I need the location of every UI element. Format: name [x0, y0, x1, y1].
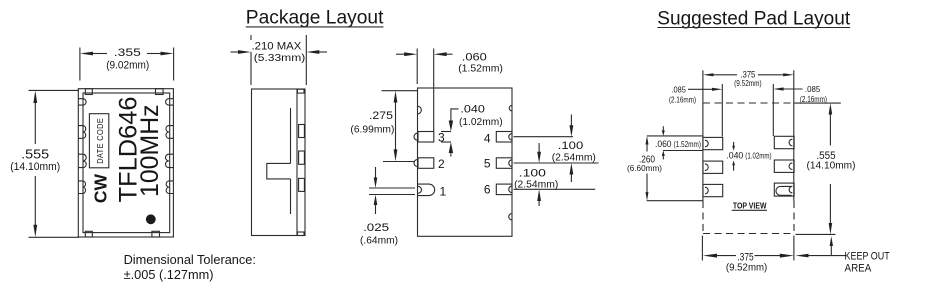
dimension .100 (2.54mm) pins 5-6	[514, 143, 596, 206]
label TOP VIEW	[732, 201, 767, 210]
dimension .100 (2.54mm) pins 4-5	[514, 115, 599, 183]
dimension .085 (2.16mm) right of pad layout	[773, 84, 827, 104]
front view left edge notch (single)	[78, 99, 86, 105]
dimension .555 (14.10mm) right of pad layout	[807, 103, 856, 234]
pin 3 pad	[414, 132, 434, 143]
dimension .260 (6.60mm) pad field height	[627, 136, 662, 201]
dimension .040 (1.02mm) pad gap	[726, 142, 771, 171]
svg-text:Suggested Pad Layout: Suggested Pad Layout	[657, 8, 851, 29]
svg-text:Dimensional Tolerance:: Dimensional Tolerance:	[124, 252, 256, 267]
svg-text:.275: .275	[369, 110, 393, 122]
svg-text:(14.10mm): (14.10mm)	[807, 160, 856, 172]
svg-text:KEEP OUT: KEEP OUT	[845, 251, 890, 263]
dimension .210 MAX (5.33mm) top of side view	[231, 35, 328, 85]
pad layout extension line right inner	[772, 84, 774, 136]
front view right edge castellation cluster 1	[166, 126, 173, 139]
svg-text:±.005 (.127mm): ±.005 (.127mm)	[124, 267, 214, 282]
pad layout keep-out dashed boundary	[703, 103, 794, 234]
svg-text:(6.60mm): (6.60mm)	[627, 163, 662, 173]
pin 1 pad (rounded)	[418, 184, 435, 196]
pin 5 pad	[496, 158, 512, 169]
svg-text:(1.52mm): (1.52mm)	[458, 62, 503, 74]
pad A1 (left top)	[703, 137, 723, 149]
pad layout extension line right outer	[793, 70, 795, 201]
svg-text:(2.16mm): (2.16mm)	[800, 95, 827, 104]
svg-text:.085: .085	[805, 84, 821, 94]
svg-text:.085: .085	[672, 84, 687, 94]
bottom view right edge notch upper	[509, 105, 512, 111]
svg-text:.025: .025	[363, 222, 389, 234]
dimension .085 (2.16mm) left of pad layout	[669, 84, 722, 104]
pad layout horizontal extension lines right	[794, 103, 841, 234]
pad A3 (left bottom)	[703, 184, 723, 196]
svg-text:(2.54mm): (2.54mm)	[514, 179, 558, 191]
dimension .060 (1.52mm) top of bottom view	[396, 49, 503, 132]
date code box	[89, 114, 108, 168]
dimension .555 (14.10mm) left of front view	[10, 90, 79, 237]
pad B1 (right top)	[774, 136, 794, 148]
front view corner castellation top-right	[156, 89, 164, 95]
dimension .355 (9.02mm) top of front view	[80, 47, 174, 80]
pad layout horizontal extension lines left	[647, 136, 703, 201]
dimension .375 (9.52mm) top of pad layout	[703, 70, 794, 88]
pad A2 (left middle)	[703, 161, 723, 173]
pin 4 pad	[496, 132, 512, 143]
dimension .375 (9.52mm) bottom of pad layout	[702, 236, 794, 274]
pad layout extension line left inner	[721, 84, 723, 137]
front view right edge castellation cluster 3	[166, 181, 173, 194]
dimension .060 (1.52mm) pad height	[655, 126, 701, 159]
svg-text:.210 MAX: .210 MAX	[252, 41, 302, 53]
svg-text:(1.02mm): (1.02mm)	[745, 151, 771, 161]
side view castellation pad 1	[299, 125, 305, 138]
svg-text:(5.33mm): (5.33mm)	[254, 52, 306, 64]
side view castellation pad 3	[299, 178, 305, 191]
svg-text:(1.02mm): (1.02mm)	[459, 116, 503, 128]
svg-text:CW: CW	[91, 173, 111, 203]
svg-text:(9.02mm): (9.02mm)	[106, 59, 149, 71]
pin 1 indicator dot	[146, 214, 156, 224]
pad B3 (right bottom, pin 1)	[774, 183, 794, 196]
note: dimensional tolerance	[124, 252, 256, 282]
bottom view package outline	[418, 88, 513, 236]
svg-text:.060: .060	[655, 139, 672, 149]
svg-text:6: 6	[484, 182, 491, 196]
svg-text:.555: .555	[21, 146, 49, 161]
side view body outline	[252, 89, 306, 236]
svg-text:(.64mm): (.64mm)	[360, 235, 398, 247]
keep out area leader and label	[795, 236, 889, 274]
svg-text:(1.52mm): (1.52mm)	[674, 139, 702, 149]
title: Package Layout	[246, 8, 384, 29]
svg-text:(14.10mm): (14.10mm)	[10, 161, 60, 173]
front view corner castellation bottom-right	[152, 231, 160, 237]
dimension .275 (6.99mm) left of bottom view	[350, 91, 417, 162]
front view right edge castellation cluster 2	[165, 154, 173, 167]
svg-text:TOP VIEW: TOP VIEW	[733, 201, 767, 210]
pin 6 pad	[496, 184, 512, 195]
svg-text:4: 4	[484, 131, 491, 145]
svg-text:DATE CODE: DATE CODE	[96, 118, 105, 164]
pad layout extension line left outer	[702, 70, 704, 201]
front view package body outline	[78, 89, 173, 237]
svg-text:(2.16mm): (2.16mm)	[669, 95, 696, 104]
pin 2 pad	[414, 158, 434, 169]
front view left edge castellation cluster 2	[78, 154, 86, 167]
svg-text:2: 2	[438, 157, 445, 171]
front view left edge castellation cluster 3	[78, 181, 85, 194]
front view right edge notch (single)	[166, 99, 174, 105]
front view left edge castellation cluster 1	[78, 126, 85, 139]
dimension .040 (1.02mm) pin 3 width	[441, 104, 503, 157]
svg-text:.355: .355	[114, 47, 141, 59]
bottom view left edge notch	[418, 106, 422, 114]
dimension .025 (.64mm) pin 1	[360, 167, 415, 247]
side view corner pad top-right	[297, 89, 304, 93]
svg-text:1: 1	[440, 185, 447, 199]
svg-text:(6.99mm): (6.99mm)	[350, 124, 394, 136]
pad B2 (right middle)	[774, 160, 794, 172]
side view corner pad bottom-right	[297, 232, 304, 236]
svg-text:(2.54mm): (2.54mm)	[552, 151, 596, 163]
svg-text:100MHz: 100MHz	[136, 104, 164, 197]
side view lid edge line	[290, 108, 292, 214]
svg-text:.040: .040	[460, 104, 485, 116]
front view corner castellation top-left	[85, 89, 92, 95]
bottom view right edge notch lower	[509, 214, 512, 221]
title: Suggested Pad Layout	[657, 8, 851, 29]
svg-text:5: 5	[484, 156, 491, 170]
svg-text:(9.52mm): (9.52mm)	[734, 78, 762, 88]
side view castellation pad 2	[299, 151, 305, 164]
svg-text:(9.52mm): (9.52mm)	[726, 262, 767, 274]
side view middle tab	[267, 163, 291, 179]
svg-text:AREA: AREA	[845, 263, 872, 275]
svg-text:.040: .040	[726, 151, 743, 161]
svg-text:.100: .100	[519, 167, 546, 179]
front view corner castellation bottom-left	[85, 231, 92, 237]
svg-text:.100: .100	[558, 140, 584, 152]
svg-text:Package Layout: Package Layout	[246, 8, 384, 29]
